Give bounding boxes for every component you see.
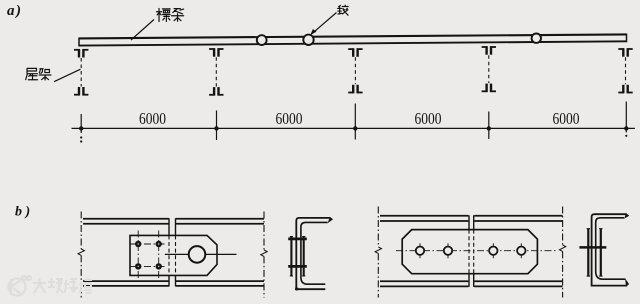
detail 2 purlin end lines: [469, 215, 474, 287]
leader line to purlin: [131, 20, 154, 41]
detail 1 bolt centerlines: [131, 231, 167, 279]
dimension tick 3: [354, 104, 356, 140]
dimension tick 4: [488, 112, 490, 140]
roof truss support 5: [618, 48, 632, 93]
detail 2 hole 4: [520, 243, 522, 258]
detail 1 bolt 1: [135, 241, 141, 247]
svg-text:b): b): [15, 205, 34, 220]
roof truss support 1: [74, 49, 88, 95]
detail 1 break line right: [261, 212, 267, 298]
detail 2 hole 3: [492, 243, 494, 258]
detail 2 horizontal centerline: [396, 250, 556, 252]
watermark logo: [9, 276, 32, 296]
detail 2 splice plate octagon: [402, 230, 537, 274]
channel 2 top lip tip: [624, 213, 629, 219]
label 铰 (hinge): [338, 5, 348, 15]
dimension tick 5: [625, 102, 627, 133]
svg-text:6000: 6000: [276, 109, 303, 128]
detail 1 splice plate: [130, 235, 217, 275]
svg-text:6000: 6000: [139, 109, 166, 128]
leader line to truss: [54, 69, 81, 82]
detail 2 break line right: [559, 207, 565, 298]
detail 1 bolt 3: [135, 263, 141, 269]
hinge circle 2: [303, 35, 313, 45]
detail 2 hole 2: [447, 243, 449, 258]
roof truss support 4: [482, 46, 496, 92]
detail 2 purlin rails: [380, 216, 563, 287]
channel 1 splice plates edge view: [290, 237, 306, 276]
detail 2 hole 1: [419, 243, 421, 258]
purlin beam: [79, 34, 627, 47]
hinge circle 1: [257, 35, 267, 45]
svg-text:6000: 6000: [415, 109, 442, 128]
watermark text: [33, 278, 92, 293]
detail 1 purlin rails: [83, 219, 264, 286]
label 屋架 (roof truss): [26, 68, 38, 79]
channel 2 splice plates edge view: [587, 229, 603, 276]
channel 1 bolt bottom: [288, 265, 307, 268]
channel 1 outer contour: [296, 218, 330, 289]
dimension tick 1: [80, 114, 82, 133]
detail 1 big hole: [189, 246, 206, 263]
channel 2 bolt: [579, 246, 606, 249]
detail 1 break line left: [78, 212, 84, 298]
channel 1 corner dot: [295, 287, 298, 290]
hinge circle 3: [532, 34, 541, 43]
svg-text:6000: 6000: [553, 109, 580, 128]
svg-text:a): a): [7, 3, 23, 19]
channel 2 inner contour: [596, 218, 626, 279]
detail 1 hole axis line: [165, 253, 237, 255]
dimension tick 2: [216, 111, 218, 141]
leader line with arrow to hinge: [313, 13, 337, 34]
detail 1 purlin end lines: [169, 218, 176, 286]
dimension line: [72, 127, 635, 129]
detail 1 bolt 4: [156, 263, 162, 269]
channel 1 bolt top: [288, 238, 307, 241]
roof truss support 2: [209, 48, 223, 95]
channel 1 inner contour: [301, 222, 328, 284]
detail 1 bolt 2: [156, 241, 162, 247]
detail 2 break line left: [375, 207, 381, 298]
roof truss support 3: [348, 48, 362, 93]
channel 1 lip tip: [328, 217, 334, 223]
channel 2 bottom lip tip: [625, 278, 629, 286]
channel 2 outer contour: [592, 214, 628, 285]
label 檩条 (purlin): [157, 9, 171, 22]
